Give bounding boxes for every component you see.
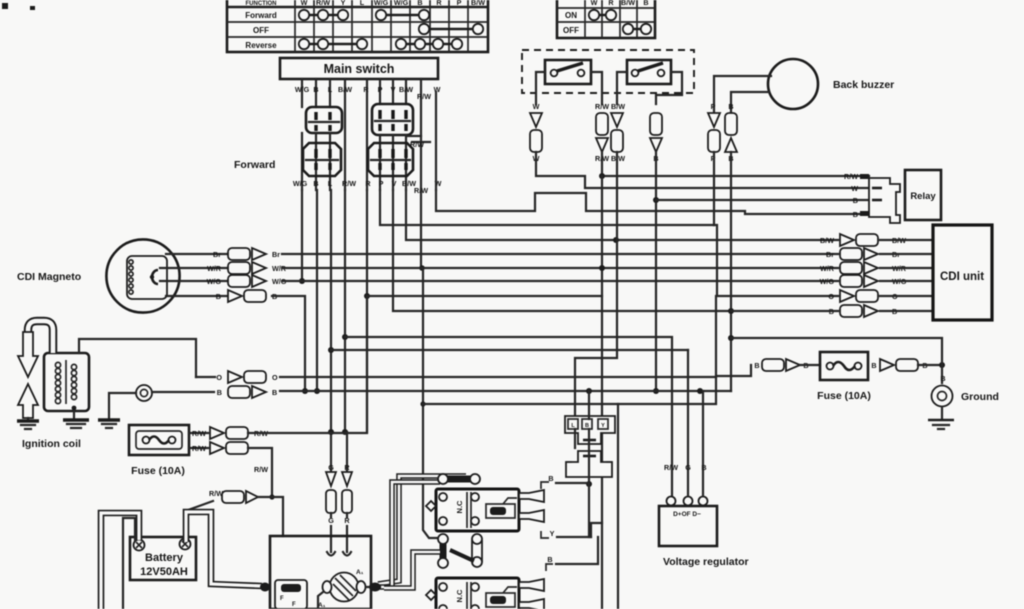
connector block B (upper right 6P) [372, 104, 430, 142]
wire CDI B row left [731, 310, 838, 312]
battery negative inner wire [123, 518, 135, 609]
wire O row mid segment [367, 295, 602, 297]
fuse R/W row 1 [189, 427, 345, 439]
svg-text:Ignition coil: Ignition coil [22, 438, 81, 450]
connector W (bullet pair) [530, 102, 542, 163]
node B junction [314, 388, 320, 394]
svg-text:R: R [608, 0, 614, 7]
switch S2 [627, 60, 671, 84]
terminal motor box right [369, 583, 381, 592]
svg-text:O: O [828, 292, 834, 301]
svg-text:R: R [436, 0, 442, 7]
N.C relay box lower [426, 578, 519, 609]
wire W/G from main switch down to W/G node [301, 190, 303, 281]
switch-position table T1 [227, 0, 488, 52]
3P connector upper half [565, 416, 615, 444]
ground symbol right [928, 374, 999, 429]
svg-text:W: W [434, 85, 441, 94]
svg-text:Forward: Forward [234, 159, 275, 171]
svg-text:W: W [591, 0, 598, 7]
relay box [905, 170, 941, 220]
svg-text:Br: Br [272, 250, 280, 259]
svg-text:B/W: B/W [611, 102, 625, 111]
connector R/W (bullet pair) [595, 102, 609, 163]
svg-text:B/W: B/W [621, 0, 635, 7]
svg-text:F: F [280, 596, 284, 602]
regulator lead wires [664, 350, 707, 496]
wire relay row3 [656, 199, 869, 201]
wire B row magneto [166, 290, 308, 394]
svg-text:OFF: OFF [253, 26, 269, 35]
svg-text:B: B [853, 210, 858, 219]
svg-text:Main switch: Main switch [324, 62, 395, 76]
connector B to CDI [829, 305, 933, 317]
svg-text:V: V [392, 179, 397, 188]
svg-text:F: F [292, 602, 296, 608]
svg-text:B: B [754, 361, 759, 370]
svg-text:B: B [313, 179, 318, 188]
connector B buzzer (bullet pair) [725, 102, 737, 163]
wire P down then right [380, 190, 714, 225]
wire S1 left pin to W lead [536, 72, 545, 104]
svg-text:B: B [701, 463, 706, 472]
spark plug [136, 385, 152, 401]
svg-text:Br: Br [213, 250, 221, 259]
svg-text:B/W: B/W [820, 236, 834, 245]
F coil inside box [275, 580, 307, 609]
svg-text:R: R [365, 179, 371, 188]
T2 ON contacts [589, 10, 616, 20]
motor armature [318, 569, 380, 609]
R lead connector [342, 463, 352, 513]
wire B from main switch down to B bus [316, 190, 318, 391]
3P connector lower half [566, 451, 612, 477]
mid studs between N.C boxes [384, 534, 482, 588]
svg-text:P: P [378, 85, 383, 94]
studs above upper N.C [438, 474, 480, 484]
svg-text:G: G [685, 463, 691, 472]
svg-text:Voltage regulator: Voltage regulator [663, 556, 749, 568]
wire R/W lead to relay row1 [602, 152, 869, 176]
wire W/R row [160, 262, 838, 274]
svg-text:R/W: R/W [316, 0, 330, 7]
long R/W line to regulator [345, 337, 672, 497]
svg-text:R/W: R/W [192, 429, 206, 438]
connector W/G to CDI [820, 275, 933, 287]
svg-text:V: V [391, 85, 396, 94]
wire Br row [166, 248, 838, 260]
wire V down then right to CDI B row [393, 190, 731, 311]
wire y404 [423, 296, 716, 404]
B row connector [217, 386, 731, 398]
wire spade B to node [541, 474, 589, 489]
svg-text:G: G [328, 463, 334, 472]
svg-text:B/W: B/W [399, 85, 413, 94]
3P pin wires [588, 391, 590, 419]
svg-text:R/W: R/W [254, 465, 268, 474]
svg-text:B/W: B/W [611, 154, 625, 163]
svg-text:B/W: B/W [338, 85, 352, 94]
svg-text:B: B [940, 374, 945, 383]
wire S2 left pin to B/W lead [617, 72, 627, 104]
svg-text:CDI unit: CDI unit [940, 271, 984, 283]
svg-text:W/G: W/G [295, 85, 310, 94]
svg-text:R: R [363, 85, 369, 94]
svg-text:W: W [533, 102, 540, 111]
switch-position table T2 [557, 0, 655, 38]
wire plug right to B row [152, 391, 214, 393]
connector block C (lower left 4P) [303, 143, 341, 176]
ground under coil [63, 406, 89, 428]
svg-text:R/W: R/W [192, 444, 206, 453]
voltage regulator [659, 497, 749, 569]
svg-text:Y: Y [341, 0, 346, 7]
upper N.C spades [519, 490, 544, 522]
svg-text:A₁: A₁ [318, 602, 326, 609]
svg-text:Reverse: Reverse [245, 41, 277, 50]
svg-text:B: B [547, 555, 552, 564]
wire coil to O row [79, 339, 196, 377]
svg-text:W/G: W/G [394, 0, 409, 7]
svg-text:Fuse (10A): Fuse (10A) [817, 390, 871, 402]
svg-text:Fuse (10A): Fuse (10A) [131, 465, 185, 477]
connector B/W (bullet pair) [611, 102, 625, 163]
svg-text:B: B [217, 388, 222, 397]
svg-text:CDI Magneto: CDI Magneto [17, 271, 81, 283]
svg-text:R: R [344, 463, 350, 472]
wire buzzer P [714, 76, 771, 113]
svg-text:P: P [379, 179, 384, 188]
svg-text:B: B [417, 0, 422, 7]
connector Br to CDI [826, 248, 933, 260]
wire HT loop to plug lead [28, 321, 53, 353]
svg-text:B: B [272, 388, 277, 397]
lower N.C spades [519, 579, 544, 609]
tiny top-left marks [2, 3, 8, 9]
wire R down, joins bus [366, 190, 368, 432]
svg-text:W/G: W/G [207, 277, 222, 286]
svg-text:W/G: W/G [374, 0, 389, 7]
T1 OFF row contacts [419, 24, 483, 34]
connector O to CDI [828, 290, 933, 302]
wire B buzzer down [730, 152, 732, 391]
ignition coil [22, 353, 89, 450]
switch S1 (stop switch) [545, 60, 591, 84]
O row connector [196, 371, 716, 383]
svg-text:L: L [328, 85, 333, 94]
fuse R/W row 2 [189, 442, 275, 500]
fuse 10A left [129, 425, 189, 477]
svg-text:W: W [301, 0, 308, 7]
G lead connector [326, 463, 336, 513]
wire R/W(2) down to W/R row then to stud [420, 190, 422, 268]
mid-stud cable (hollow) [384, 552, 440, 588]
T2 OFF contacts [623, 24, 651, 34]
svg-text:B: B [643, 0, 648, 7]
svg-text:B: B [216, 292, 221, 301]
N.C relay box upper [426, 489, 519, 531]
wires between blocks [302, 133, 406, 190]
HT lead arrows (spark gap) [18, 332, 38, 418]
svg-text:B: B [548, 474, 553, 483]
svg-text:L: L [328, 179, 333, 188]
svg-text:W/G: W/G [293, 179, 308, 188]
svg-text:P: P [711, 102, 716, 111]
T1 Forward row contacts [299, 10, 429, 20]
connector block A (upper left 4P) [306, 107, 342, 133]
svg-text:B: B [313, 85, 318, 94]
back buzzer [768, 59, 894, 109]
wire B/W down then right to CDI B/W row [406, 190, 838, 240]
svg-text:L: L [360, 0, 365, 7]
wire L down, tap to G lead [330, 190, 332, 472]
battery positive to R/W link [188, 489, 283, 536]
battery positive cable to motor box (hollow) [186, 512, 262, 586]
svg-text:FUNCTION: FUNCTION [246, 1, 277, 7]
svg-text:W/G: W/G [820, 277, 835, 286]
svg-text:R/W: R/W [664, 463, 678, 472]
svg-text:B: B [871, 361, 876, 370]
connector W/R to CDI [820, 262, 933, 274]
svg-text:W/R: W/R [820, 264, 835, 273]
svg-text:Y: Y [550, 529, 555, 538]
wire spade Y [541, 529, 591, 538]
ground under HT lead [17, 418, 39, 429]
svg-text:B: B [853, 196, 858, 205]
long L/G line [331, 349, 688, 351]
wire R/W down to R/W node and R lead [344, 190, 346, 432]
svg-text:P: P [457, 0, 462, 7]
wires G,R into motor box [327, 513, 351, 556]
svg-text:A₁: A₁ [356, 569, 364, 576]
svg-text:R/W: R/W [342, 179, 356, 188]
fuse (10A) right [754, 352, 945, 402]
motor / controller box [270, 536, 371, 609]
wire S1 right pin to R/W lead [591, 72, 602, 104]
wire buzzer B to ground [731, 338, 942, 383]
svg-text:D+OF D−: D+OF D− [673, 511, 701, 518]
wire P row turns down to O row [714, 225, 838, 296]
svg-text:N.C: N.C [455, 500, 464, 514]
svg-text:R/W: R/W [209, 489, 223, 498]
CDI unit connector rows [820, 234, 933, 246]
svg-text:O: O [272, 373, 278, 382]
main switch box [280, 58, 438, 79]
svg-text:B/W: B/W [471, 0, 485, 7]
wire W down and right to relay [436, 190, 869, 214]
svg-text:Forward: Forward [245, 11, 277, 20]
svg-text:N.C: N.C [455, 589, 464, 603]
wire B lead down to relay row3 and B bus [655, 152, 657, 391]
ground under plug [98, 420, 120, 428]
svg-text:Br: Br [826, 250, 834, 259]
main switch pin wires and labels [295, 79, 441, 190]
relay connector [844, 172, 900, 223]
svg-text:Y: Y [601, 423, 605, 429]
svg-text:R/W: R/W [844, 172, 858, 181]
svg-text:12V50AH: 12V50AH [140, 566, 188, 578]
svg-text:W: W [851, 184, 858, 193]
svg-text:ON: ON [565, 11, 577, 20]
wire S2 right pin to B lead [656, 72, 682, 104]
svg-text:W/R: W/R [207, 264, 222, 273]
wire lower spade B [546, 537, 598, 571]
dashed connector housing [522, 50, 694, 93]
connector P (bullet pair) [708, 102, 720, 163]
connector B (bullet pair) [650, 113, 662, 163]
T1 Reverse row contacts [299, 39, 462, 49]
wire buzzer B [731, 92, 769, 113]
CDI magneto [17, 239, 180, 312]
wire x618 down [617, 404, 619, 609]
stud feed cable 1 (hollow) [378, 476, 466, 584]
wire plug to ground [109, 393, 136, 418]
connector block D (lower right 6P) [368, 143, 413, 176]
wire O net to fuse riser [716, 365, 751, 376]
battery [130, 537, 196, 580]
svg-text:Back buzzer: Back buzzer [833, 79, 894, 91]
wire B/W lead down to CDI B/W row then 3P connector [575, 152, 617, 418]
node W/G junction [299, 278, 305, 284]
terminal motor box left [260, 583, 270, 592]
svg-text:O: O [216, 373, 222, 382]
svg-text:R/W: R/W [417, 92, 431, 101]
svg-text:Battery: Battery [145, 552, 184, 564]
labels under lower blocks [293, 140, 442, 195]
wire P buzzer joins P row [713, 152, 715, 225]
svg-text:R/W: R/W [595, 102, 609, 111]
wire Y net step [591, 523, 602, 537]
battery negative cable (hollow) [101, 513, 139, 609]
stud feed cable 2 (hollow) [380, 482, 440, 587]
svg-text:Ground: Ground [961, 391, 999, 403]
CDI unit box [933, 225, 992, 320]
svg-text:R/W: R/W [410, 140, 424, 149]
svg-text:B: B [728, 102, 733, 111]
svg-text:Relay: Relay [910, 191, 936, 202]
wire W lead to relay row2 [536, 152, 869, 188]
svg-text:OFF: OFF [563, 26, 579, 35]
wire W/G row [160, 275, 838, 287]
R/W bus y=432 [345, 296, 367, 433]
